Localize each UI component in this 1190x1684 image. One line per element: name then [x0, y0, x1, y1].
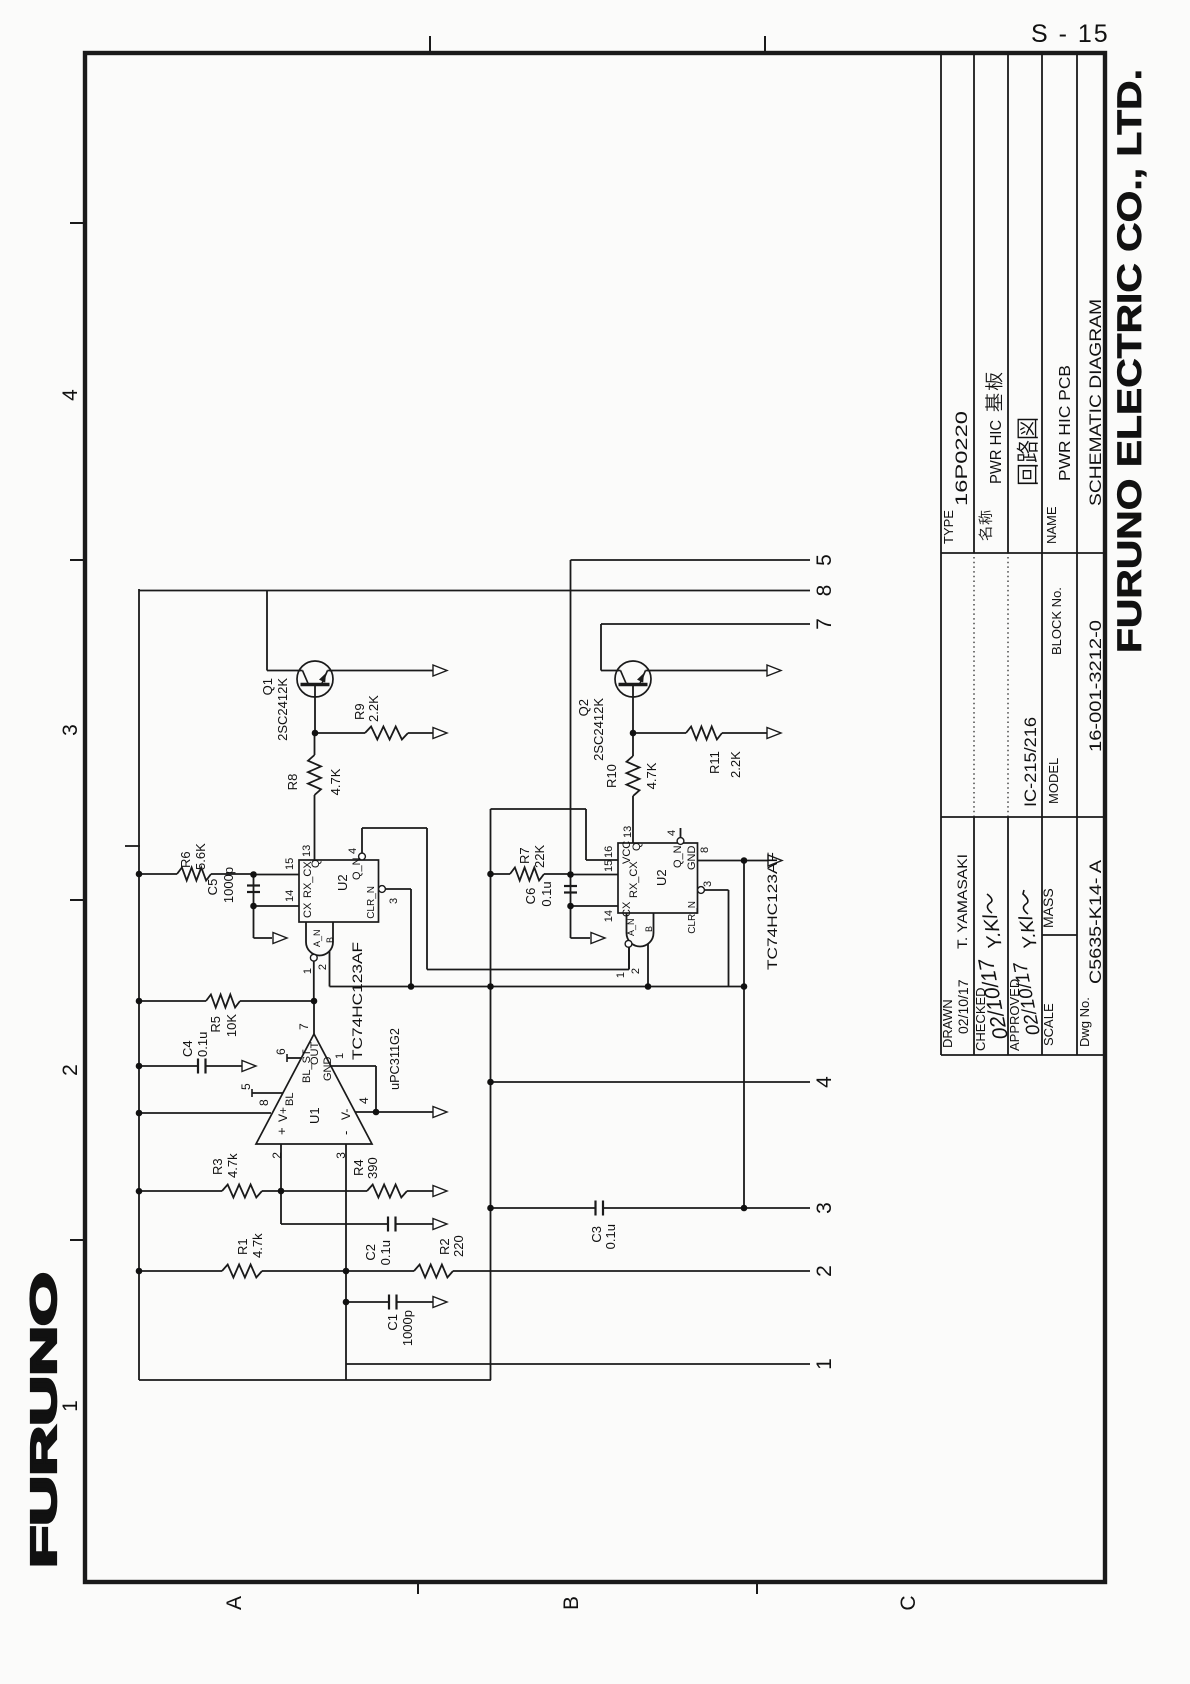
svg-text:02/10/17: 02/10/17	[955, 979, 971, 1034]
svg-text:OUT: OUT	[309, 1042, 321, 1066]
svg-text:CLR_N: CLR_N	[687, 901, 698, 934]
svg-text:TC74HC123AF: TC74HC123AF	[349, 942, 365, 1060]
svg-text:C1: C1	[385, 1314, 400, 1331]
svg-text:U2: U2	[654, 869, 669, 886]
svg-text:R4: R4	[351, 1159, 366, 1176]
svg-text:BL: BL	[284, 1093, 296, 1106]
svg-text:PWR HIC PCB: PWR HIC PCB	[1057, 365, 1074, 481]
svg-text:16P0220: 16P0220	[952, 411, 971, 506]
svg-text:C6: C6	[523, 888, 538, 905]
svg-text:0.1u: 0.1u	[378, 1240, 393, 1265]
svg-text:MODEL: MODEL	[1046, 758, 1061, 804]
svg-text:5: 5	[813, 554, 836, 566]
svg-text:V-: V-	[339, 1109, 353, 1120]
svg-text:IC-215/216: IC-215/216	[1021, 717, 1040, 807]
svg-text:1: 1	[615, 972, 627, 978]
svg-text:A_N: A_N	[312, 929, 322, 947]
svg-text:6: 6	[274, 1048, 288, 1055]
svg-text:8: 8	[257, 1099, 271, 1106]
svg-text:1000p: 1000p	[400, 1310, 415, 1346]
svg-text:B: B	[325, 937, 335, 943]
svg-text:CX: CX	[302, 902, 314, 918]
svg-text:4: 4	[666, 830, 678, 836]
svg-text:V+: V+	[276, 1107, 290, 1122]
svg-text:R3: R3	[210, 1158, 225, 1175]
svg-text:R2: R2	[437, 1238, 452, 1255]
svg-text:4: 4	[357, 1097, 371, 1104]
svg-text:4: 4	[59, 389, 82, 401]
svg-text:Q1: Q1	[260, 678, 275, 695]
svg-text:15: 15	[603, 860, 615, 872]
svg-text:R8: R8	[285, 774, 300, 791]
svg-text:TC74HC123AF: TC74HC123AF	[764, 852, 780, 970]
svg-text:16: 16	[603, 846, 615, 858]
svg-text:C5635-K14- A: C5635-K14- A	[1086, 859, 1105, 984]
svg-text:13: 13	[622, 826, 634, 838]
svg-text:4: 4	[347, 848, 359, 854]
svg-text:2: 2	[270, 1152, 284, 1159]
svg-text:A_N: A_N	[626, 918, 636, 936]
svg-text:3: 3	[388, 898, 400, 904]
svg-text:10K: 10K	[224, 1014, 239, 1037]
svg-text:R7: R7	[517, 847, 532, 864]
svg-text:14: 14	[603, 910, 615, 922]
svg-text:U1: U1	[307, 1107, 322, 1124]
svg-text:4: 4	[813, 1076, 836, 1088]
svg-text:3: 3	[334, 1152, 348, 1159]
svg-text:8: 8	[699, 847, 711, 853]
svg-text:0.1u: 0.1u	[539, 881, 554, 906]
svg-text:Q: Q	[310, 859, 322, 868]
svg-text:1000p: 1000p	[221, 867, 236, 903]
svg-text:16-001-3212-0: 16-001-3212-0	[1086, 620, 1105, 752]
svg-text:13: 13	[301, 845, 313, 857]
svg-text:+: +	[274, 1127, 289, 1135]
svg-text:RX_CX: RX_CX	[628, 861, 640, 898]
svg-text:S - 15: S - 15	[1031, 20, 1110, 48]
svg-text:2: 2	[630, 968, 642, 974]
svg-text:C2: C2	[363, 1244, 378, 1261]
svg-text:Q: Q	[631, 842, 643, 851]
svg-text:4.7k: 4.7k	[250, 1233, 265, 1258]
svg-text:FURUNO: FURUNO	[23, 1272, 64, 1568]
svg-text:Q_N: Q_N	[672, 845, 684, 868]
svg-text:C: C	[897, 1595, 920, 1610]
svg-text:390: 390	[365, 1157, 380, 1179]
svg-text:B: B	[560, 1596, 583, 1610]
svg-text:C3: C3	[589, 1226, 604, 1243]
svg-text:U2: U2	[335, 874, 350, 891]
svg-text:R5: R5	[208, 1016, 223, 1033]
svg-text:2SC2412K: 2SC2412K	[275, 678, 290, 741]
svg-text:R10: R10	[604, 764, 619, 788]
svg-text:MASS: MASS	[1040, 888, 1056, 928]
svg-text:SCHEMATIC DIAGRAM: SCHEMATIC DIAGRAM	[1086, 299, 1105, 506]
svg-text:3: 3	[59, 724, 82, 736]
svg-text:22K: 22K	[532, 845, 547, 868]
svg-text:FURUNO ELECTRIC CO., LTD.: FURUNO ELECTRIC CO., LTD.	[1111, 69, 1149, 653]
svg-text:4.7K: 4.7K	[644, 762, 659, 789]
svg-text:2: 2	[59, 1064, 82, 1076]
svg-text:Q_N: Q_N	[351, 857, 363, 880]
svg-text:A: A	[223, 1596, 246, 1610]
svg-text:1: 1	[334, 1053, 346, 1059]
svg-text:4.7k: 4.7k	[225, 1153, 240, 1178]
svg-text:GND: GND	[686, 846, 698, 871]
svg-text:2: 2	[813, 1265, 836, 1277]
svg-text:3: 3	[813, 1202, 836, 1214]
svg-text:CLR_N: CLR_N	[366, 886, 377, 919]
svg-text:BLOCK No.: BLOCK No.	[1049, 587, 1064, 655]
svg-text:B: B	[644, 926, 654, 932]
svg-text:NAME: NAME	[1044, 506, 1059, 544]
svg-text:2: 2	[317, 964, 329, 970]
svg-text:8: 8	[813, 585, 836, 597]
svg-text:3: 3	[702, 881, 714, 887]
svg-text:R9: R9	[352, 703, 367, 720]
svg-text:C4: C4	[180, 1040, 195, 1057]
svg-text:R1: R1	[235, 1238, 250, 1255]
svg-text:0.1u: 0.1u	[603, 1224, 618, 1249]
svg-text:DRAWN: DRAWN	[940, 999, 955, 1048]
svg-text:1: 1	[813, 1358, 836, 1370]
svg-text:2.2K: 2.2K	[366, 695, 381, 722]
svg-text:Dwg No.: Dwg No.	[1077, 997, 1092, 1047]
svg-text:7: 7	[813, 618, 836, 630]
svg-text:2SC2412K: 2SC2412K	[591, 698, 606, 761]
svg-text:T. YAMASAKI: T. YAMASAKI	[954, 854, 970, 949]
svg-text:15: 15	[284, 858, 296, 870]
svg-text:C5: C5	[205, 879, 220, 896]
svg-text:R11: R11	[707, 751, 722, 774]
svg-text:1: 1	[302, 968, 314, 974]
svg-text:CX: CX	[621, 901, 633, 917]
svg-text:TYPE: TYPE	[941, 510, 956, 544]
svg-text:14: 14	[284, 890, 296, 902]
svg-text:220: 220	[451, 1235, 466, 1257]
svg-text:2.2K: 2.2K	[728, 751, 743, 778]
svg-text:uPC311G2: uPC311G2	[387, 1028, 402, 1090]
svg-text:0.1u: 0.1u	[195, 1032, 210, 1057]
svg-text:7: 7	[297, 1023, 311, 1030]
svg-text:R6: R6	[178, 851, 193, 868]
svg-text:Q2: Q2	[576, 699, 591, 716]
svg-text:5: 5	[239, 1083, 253, 1090]
svg-text:-: -	[338, 1131, 353, 1135]
svg-text:4.7K: 4.7K	[328, 768, 343, 795]
svg-text:GND: GND	[322, 1057, 334, 1082]
svg-text:PWR HIC: PWR HIC	[988, 420, 1005, 484]
svg-text:5.6K: 5.6K	[193, 843, 208, 870]
